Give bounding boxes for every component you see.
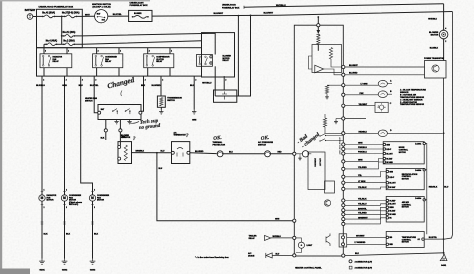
svg-text:MOTOR: MOTOR xyxy=(399,152,407,154)
transistor Q2 xyxy=(326,234,330,247)
svg-text:BLU/RED: BLU/RED xyxy=(195,151,204,153)
svg-text:2: 2 xyxy=(82,79,83,81)
svg-text:2: 2 xyxy=(45,51,46,53)
connector pin YEL 176.8 xyxy=(342,175,345,178)
svg-text:LT GRN: LT GRN xyxy=(358,181,366,183)
svg-text:NC-OUT: NC-OUT xyxy=(389,183,395,185)
noise condenser xyxy=(214,76,237,102)
svg-text:: CONNECTOR (4-P): : CONNECTOR (4-P) xyxy=(354,260,372,263)
svg-text:1: 1 xyxy=(171,51,172,53)
svg-text:LIGHT: LIGHT xyxy=(307,245,314,247)
svg-text:TEMPERATURE SENSOR: TEMPERATURE SENSOR xyxy=(400,103,425,106)
svg-text:: CONNECTOR (8-P): : CONNECTOR (8-P) xyxy=(354,268,372,270)
svg-text:No.57(5-0) (30A): No.57(5-0) (30A) xyxy=(62,12,80,15)
svg-text:2: 2 xyxy=(98,51,99,53)
svg-text:CIRCUIT: CIRCUIT xyxy=(319,158,321,167)
svg-text:PROTECTOR: PROTECTOR xyxy=(213,144,226,146)
wire blower motor to power transistor BLU/BLK xyxy=(430,38,444,60)
svg-text:SWITCH: SWITCH xyxy=(167,100,175,102)
diode D1 xyxy=(317,27,321,35)
svg-text:OK.: OK. xyxy=(260,135,269,142)
under-hood fuse/relay box xyxy=(37,6,83,48)
svg-text:SWITCH: SWITCH xyxy=(258,144,266,146)
wires to temperature motor xyxy=(347,235,387,237)
heater control panel box xyxy=(294,25,343,256)
A/C pressure switch xyxy=(258,135,274,157)
wire radiator fan motor drop xyxy=(41,76,43,195)
svg-text:2: 2 xyxy=(94,207,95,209)
svg-text:BLU: BLU xyxy=(79,85,84,87)
svg-text:DIMMING: DIMMING xyxy=(314,158,316,167)
svg-text:WHT/BLU: WHT/BLU xyxy=(428,19,437,21)
svg-text:G202: G202 xyxy=(62,270,68,272)
wire resistor out BRN/BLK xyxy=(132,150,172,153)
top feed wire WHT/BLU (line1) to blower motor xyxy=(244,4,444,9)
svg-text:PNK/BLU: PNK/BLU xyxy=(358,152,367,154)
recirculation control motor box xyxy=(386,168,424,189)
svg-text:1: 1 xyxy=(94,190,95,192)
ground G202 xyxy=(62,259,68,272)
line2 vertical right edge down xyxy=(445,12,453,240)
motor Condenser Fan Motor xyxy=(61,190,83,210)
svg-text:BLK: BLK xyxy=(94,234,99,236)
svg-text:MOTOR: MOTOR xyxy=(431,35,439,37)
svg-text:RELAY: RELAY xyxy=(53,60,60,63)
svg-text:M: M xyxy=(41,196,44,200)
svg-text:GRN/WHT: GRN/WHT xyxy=(358,217,368,219)
svg-text:RELAY: RELAY xyxy=(223,59,230,62)
svg-text:BLU/WHT: BLU/WHT xyxy=(349,65,359,67)
under-dash fuse/relay box xyxy=(129,1,152,21)
svg-text:RESISTOR: RESISTOR xyxy=(121,137,131,139)
transmission clutch switch box xyxy=(152,76,183,114)
wire fan switch bottom pins down xyxy=(101,120,108,141)
svg-text:1: 1 xyxy=(44,190,45,192)
air mix control motor box xyxy=(386,197,424,223)
wire BLU to pressure switch xyxy=(223,152,264,154)
svg-text:RED/BLK: RED/BLK xyxy=(359,131,368,133)
connector pin BLK 255.6 xyxy=(342,254,345,257)
wire fuse row2 to blower relay box xyxy=(74,33,215,54)
svg-text:G203: G203 xyxy=(90,270,96,272)
connector pin LT GRN 85.2 xyxy=(342,84,345,87)
svg-text:M: M xyxy=(63,196,66,200)
svg-text:FUSE/RELAY BOX: FUSE/RELAY BOX xyxy=(130,4,149,7)
node junction fuse row1 xyxy=(61,16,63,18)
wire motor to ground xyxy=(41,201,48,258)
svg-text:GRN: GRN xyxy=(62,85,67,87)
svg-text:WITH A/C): WITH A/C) xyxy=(69,203,79,206)
right bus RED/BLK vertical xyxy=(423,142,438,234)
svg-text:BLU/BLK: BLU/BLK xyxy=(430,48,439,50)
wire blower relay bottom pin down xyxy=(202,66,215,96)
svg-text:YEL/RED: YEL/RED xyxy=(358,213,367,215)
svg-text:G401: G401 xyxy=(441,264,447,267)
svg-text:BLK/YEL: BLK/YEL xyxy=(90,85,99,87)
connector pin PNK 94.8 xyxy=(342,93,345,96)
svg-text:M: M xyxy=(91,196,94,200)
svg-text:PNK: PNK xyxy=(360,93,365,95)
svg-text:MOTOR: MOTOR xyxy=(402,179,410,181)
mode control motor box xyxy=(383,142,424,164)
svg-text:MOTOR: MOTOR xyxy=(97,200,105,202)
svg-text:BLK: BLK xyxy=(190,85,195,87)
svg-text:BLU/WHT: BLU/WHT xyxy=(264,13,274,15)
indicator light L1 xyxy=(296,238,313,253)
svg-text:D-4004: D-4004 xyxy=(415,142,421,145)
ground G201 xyxy=(39,259,45,272)
wire line2 drop x238 xyxy=(238,15,240,96)
wire motor to ground xyxy=(91,201,98,258)
svg-text:FUSE/RELAY BOX: FUSE/RELAY BOX xyxy=(222,6,240,9)
connector pin GRN 161.4 xyxy=(342,160,345,163)
ground fan switch 1 xyxy=(116,120,118,122)
wire battery to fuse box xyxy=(33,16,37,18)
wire xyxy=(54,15,64,17)
temperature control motor box xyxy=(386,232,424,248)
connector pin GRN/RED 118.5 xyxy=(342,117,345,120)
svg-text:SENS: SENS xyxy=(389,207,393,209)
switch contacts internal xyxy=(319,134,343,137)
ignition switch xyxy=(92,4,111,23)
relay Compressor xyxy=(144,48,174,76)
sub-box aux xyxy=(325,181,335,193)
wire condenser fan motor drop xyxy=(64,76,66,195)
resistor internal 2 xyxy=(323,114,343,133)
svg-text:(IG-DKP or DK-B): (IG-DKP or DK-B) xyxy=(93,7,111,9)
wire to power transistor 1 xyxy=(345,65,425,67)
svg-text:RED: RED xyxy=(278,152,283,154)
connector pin YEL/RED 168.9 xyxy=(342,167,345,170)
fuse No.57 (30A) xyxy=(62,12,82,18)
relay enclosure box (under-hood) xyxy=(37,48,202,76)
svg-text:2: 2 xyxy=(44,207,45,209)
svg-text:NC-OUT: NC-OUT xyxy=(386,153,392,155)
ground fan switch 2 xyxy=(129,120,131,122)
sub-box sensor circuit xyxy=(308,152,325,190)
svg-text:BLK/YEL: BLK/YEL xyxy=(113,14,123,16)
connector pin RED/BLK 133.3 xyxy=(342,132,345,135)
connector box around temp pins xyxy=(339,234,347,247)
svg-text:1: 1 xyxy=(120,51,121,53)
svg-text:NC-OUT: NC-OUT xyxy=(389,204,395,206)
svg-text:MOTOR: MOTOR xyxy=(402,207,410,209)
wire GRN/RED stub xyxy=(345,118,366,120)
svg-text:RELAY: RELAY xyxy=(156,60,163,63)
svg-text:BLK/BLU: BLK/BLU xyxy=(36,85,45,87)
wire to power transistor 2 xyxy=(345,73,425,75)
right main vertical to ground xyxy=(443,78,445,253)
svg-text:No.41 (80A): No.41 (80A) xyxy=(42,12,55,15)
svg-text:BLK: BLK xyxy=(44,234,49,236)
svg-text:BRN/BLK: BRN/BLK xyxy=(136,150,145,152)
svg-text:YEL/BLK: YEL/BLK xyxy=(358,199,367,201)
svg-text:VC-REF: VC-REF xyxy=(389,200,395,202)
outside air temp sensor oval B xyxy=(345,91,392,98)
svg-text:BLU/WHT: BLU/WHT xyxy=(214,13,224,15)
svg-text:BRN/YEL: BRN/YEL xyxy=(358,208,368,210)
resistor R-int1 xyxy=(317,35,320,51)
svg-text:WHT/BLU: WHT/BLU xyxy=(273,236,282,238)
battery B1 xyxy=(25,9,36,19)
svg-text:OK.: OK. xyxy=(213,135,222,142)
fuse No.17 inside under-dash box xyxy=(132,13,149,18)
wire RED into control panel xyxy=(271,152,293,154)
svg-text:BLU/RED: BLU/RED xyxy=(152,85,161,87)
wire line1 down at right xyxy=(443,4,445,31)
power transistor box xyxy=(424,57,446,78)
svg-text:MOTOR: MOTOR xyxy=(47,200,55,202)
svg-text:WHT: WHT xyxy=(85,14,90,16)
svg-text:GRN: GRN xyxy=(358,143,363,145)
blower motor xyxy=(429,27,448,43)
wire vertical from fuse row1 down xyxy=(61,16,63,44)
svg-text:UNDER-HOOD: UNDER-HOOD xyxy=(222,5,236,7)
svg-text:IG2: IG2 xyxy=(102,19,105,21)
svg-text:YEL/WHT: YEL/WHT xyxy=(359,104,368,106)
connector legend xyxy=(349,260,372,270)
wire motor to ground xyxy=(63,201,70,258)
svg-text:2: 2 xyxy=(149,51,150,53)
connector pin GRN/WHT 219.1 xyxy=(342,218,345,221)
thermal protector xyxy=(213,135,226,157)
svg-text:BLK: BLK xyxy=(141,85,146,87)
connector pin GRN 144.5 xyxy=(342,143,345,146)
svg-text:1: 1 xyxy=(66,190,67,192)
connector pin GRN/ORN 223.9 xyxy=(342,222,345,225)
svg-text:2: 2 xyxy=(162,79,163,81)
svg-text:GRY/WHT: GRY/WHT xyxy=(356,235,365,237)
svg-text:UNDER-DASH: UNDER-DASH xyxy=(130,1,144,4)
svg-text:HEATER CONTROL PANEL: HEATER CONTROL PANEL xyxy=(295,266,322,269)
fuse No.2 (30A) xyxy=(57,40,76,46)
svg-text:BLU: BLU xyxy=(444,187,449,189)
svg-text:No.21 (20A): No.21 (20A) xyxy=(63,31,76,34)
wire fuse box to ignition switch, WHT xyxy=(82,14,94,16)
svg-text:YEL/BLU: YEL/BLU xyxy=(358,204,367,206)
svg-text:BLK: BLK xyxy=(66,234,71,236)
svg-text:GRN: GRN xyxy=(275,218,280,220)
svg-text:2: 2 xyxy=(66,207,67,209)
wire heater fan switch feed xyxy=(94,76,98,113)
resistor inside op-amp box xyxy=(329,48,332,60)
relay Condenser xyxy=(93,48,123,76)
transistor Q1 xyxy=(324,200,330,206)
svg-text:WHT/BLU: WHT/BLU xyxy=(276,5,286,7)
connector pin BRN/YEL 210.2 xyxy=(342,209,345,212)
svg-text:HONDA TEMP UNIT: HONDA TEMP UNIT xyxy=(338,137,341,155)
connector pin BLU/RED 74.8 xyxy=(342,73,345,76)
A/C diode triangle xyxy=(248,252,296,258)
svg-text:RELAY: RELAY xyxy=(105,60,112,63)
svg-text:BLK: BLK xyxy=(355,253,360,255)
ground G203 xyxy=(90,259,96,272)
svg-text:POWER TRANSISTOR: POWER TRANSISTOR xyxy=(424,57,445,60)
op-amp block box xyxy=(312,45,342,73)
svg-text:2: 2 xyxy=(95,79,96,81)
wire ignition to under-dash box, BLK/YEL xyxy=(108,14,129,16)
svg-text:D-4004: D-4004 xyxy=(415,197,421,200)
svg-text:UNDER-HOOD FUSE/RELAY BOX: UNDER-HOOD FUSE/RELAY BOX xyxy=(39,6,74,9)
connector pin YEL/WHT 105.7 xyxy=(342,104,345,107)
connector pin PNK/BLU 149.0 xyxy=(342,147,345,150)
svg-text:YEL/BLK: YEL/BLK xyxy=(358,187,367,189)
in-car temp sensor oval A xyxy=(345,80,392,87)
main feed wire BLU/WHT across top (line2) xyxy=(152,12,452,17)
svg-text:D-4004: D-4004 xyxy=(415,169,421,172)
ground G401 xyxy=(440,253,447,267)
sunlight sensor box C xyxy=(345,102,392,112)
op-amp U1 xyxy=(315,65,324,73)
svg-text:NC-GND: NC-GND xyxy=(389,214,396,216)
svg-text:MOTOR: MOTOR xyxy=(402,242,410,244)
wire bottom bus from resistor junction xyxy=(157,153,293,221)
sensor legend text xyxy=(400,89,426,107)
wire with ground GRN xyxy=(190,76,197,121)
svg-text:BLOWER: BLOWER xyxy=(134,13,142,15)
svg-text:RED/BLK: RED/BLK xyxy=(429,187,438,189)
bottom BLK bus wire xyxy=(345,252,445,256)
svg-text:YEL/RED: YEL/RED xyxy=(358,167,367,169)
evaporator temp sensor oval D xyxy=(345,130,443,137)
blower resistor xyxy=(118,135,136,164)
wires op-amp outputs to pins xyxy=(324,69,344,75)
pressure input sub-box xyxy=(293,151,312,160)
svg-text:1: 1 xyxy=(68,51,69,53)
relay Radiator xyxy=(40,48,72,76)
wire group air mix motor xyxy=(345,201,386,224)
fuse No.41 (80A) xyxy=(37,12,56,18)
wire BLK/YEL from temp motor to bus xyxy=(424,237,444,240)
svg-text:DIODE: DIODE xyxy=(248,255,255,257)
svg-text:No.2 (30A): No.2 (30A) xyxy=(63,40,75,43)
wire fan switch right pin up xyxy=(140,76,143,111)
wire thermostat to thermal protector BLU/RED xyxy=(190,151,217,154)
fuse No.4 (40A) xyxy=(44,40,57,48)
svg-text:LT GRN: LT GRN xyxy=(361,83,369,85)
svg-text:BLU/RED: BLU/RED xyxy=(349,73,358,75)
svg-text:WHT/BLU: WHT/BLU xyxy=(202,83,212,85)
svg-text:BATTERY: BATTERY xyxy=(25,9,36,12)
svg-text:* : In the under-hood fuse/rel: * : In the under-hood fuse/relay box xyxy=(195,256,229,259)
svg-text:2: 2 xyxy=(43,79,44,81)
svg-text:THERMOSTAT: THERMOSTAT xyxy=(174,134,187,137)
svg-text:RELAY: RELAY xyxy=(249,237,256,240)
pin GRN bottom bus xyxy=(293,219,296,222)
svg-text:G201: G201 xyxy=(39,270,45,272)
svg-text:NC-GND: NC-GND xyxy=(386,162,393,164)
svg-text:2: 2 xyxy=(225,79,226,81)
wire line2 drop x250 and bus y96 xyxy=(215,15,251,97)
svg-text:PNK/BLU: PNK/BLU xyxy=(358,147,367,149)
resistor to ground internal 1 xyxy=(325,85,343,99)
svg-text:2: 2 xyxy=(145,79,146,81)
connector pin PNK/BLU 153.5 xyxy=(342,152,345,155)
A/C thermostat xyxy=(171,132,190,164)
svg-text:BLU: BLU xyxy=(161,151,166,153)
blower relay outer box (under-dash) xyxy=(202,5,241,77)
svg-text:No.4 (40A): No.4 (40A) xyxy=(46,40,58,43)
pin top feed xyxy=(317,16,320,27)
fuse No.21 (20A) xyxy=(62,31,76,37)
svg-text:GRN: GRN xyxy=(192,120,197,122)
svg-text:2: 2 xyxy=(66,79,67,81)
svg-text:LT GRN/RED: LT GRN/RED xyxy=(355,242,367,244)
svg-text:IGNITION SWITCH: IGNITION SWITCH xyxy=(92,4,111,6)
motor Condenser Fan Motor xyxy=(89,190,109,210)
svg-text:2: 2 xyxy=(445,41,446,43)
connector pin BLU/WHT 67.0 xyxy=(342,65,345,68)
svg-text:4: 4 xyxy=(445,27,446,30)
wire third fan motor drop xyxy=(81,76,93,195)
heater fan switch xyxy=(85,97,142,120)
relay Blower Motor Relay xyxy=(197,55,232,67)
motor Radiator Fan Motor xyxy=(39,190,57,210)
svg-text:BLU: BLU xyxy=(229,152,234,154)
wire fuse row3 out right xyxy=(74,41,201,45)
svg-text:2: 2 xyxy=(195,79,196,81)
svg-text:SWITCH: SWITCH xyxy=(85,100,93,102)
svg-text:GRN: GRN xyxy=(358,160,363,162)
connector pin YEL/RED 214.3 xyxy=(342,213,345,216)
wire group mode motor xyxy=(345,145,383,169)
svg-text:BLK/YEL: BLK/YEL xyxy=(429,237,438,239)
internal ground node xyxy=(334,119,343,124)
connector pin YEL/BLK 188.9 xyxy=(342,187,345,190)
connector pin LT GRN 182.7 xyxy=(342,181,345,184)
connector pin YEL/BLK 200.5 xyxy=(342,199,345,202)
svg-text:A2: A2 xyxy=(418,238,420,241)
trailer relay triangle xyxy=(249,235,296,241)
wire group recirculation motor xyxy=(345,172,386,189)
connector pin YEL/BLU 205.3 xyxy=(342,204,345,207)
